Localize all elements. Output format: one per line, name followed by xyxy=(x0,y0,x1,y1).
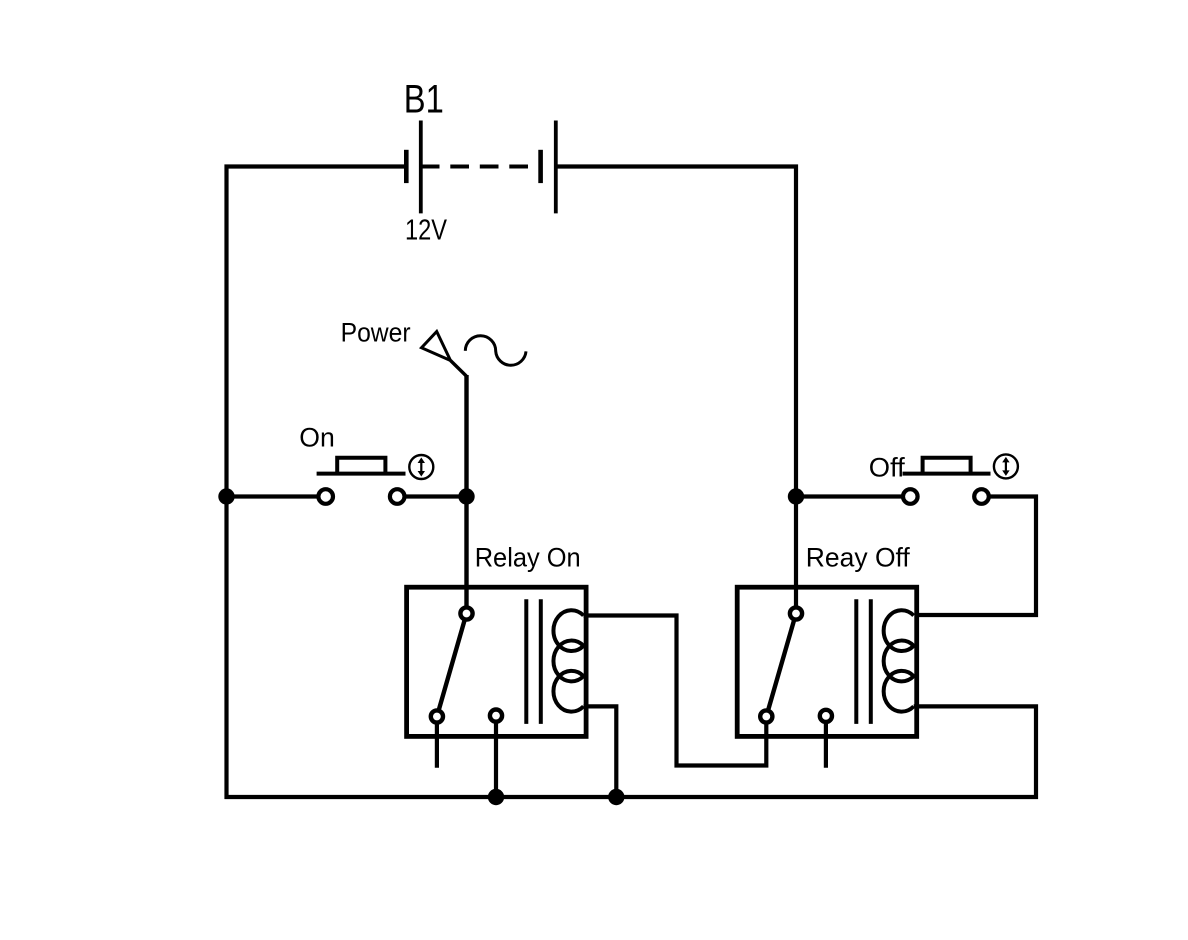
coil core line 1 xyxy=(524,599,528,724)
coil core line 2 xyxy=(539,599,543,724)
junction node right rail xyxy=(788,488,804,504)
battery cell2 negative plate xyxy=(538,150,543,183)
battery B1 xyxy=(406,121,556,214)
switch NC terminal xyxy=(760,710,772,722)
svg-text:Off: Off xyxy=(869,453,905,483)
wire right rail to Off terminal xyxy=(796,494,902,498)
switch NO terminal xyxy=(820,710,832,722)
svg-text:Reay Off: Reay Off xyxy=(806,542,910,572)
svg-text:On: On xyxy=(299,423,335,453)
coil loops xyxy=(553,610,583,711)
battery cell2 positive plate xyxy=(554,121,558,214)
NO wire down to bus xyxy=(494,716,498,797)
svg-text:Relay On: Relay On xyxy=(475,542,581,572)
switch common terminal xyxy=(460,607,472,619)
svg-text:12V: 12V xyxy=(405,214,447,246)
wire left loop: left vertical + top wire to battery xyxy=(227,167,407,800)
junction node bus Relay On coil xyxy=(608,789,624,805)
buzzer lead xyxy=(451,361,467,377)
wire Relay On coil bottom to bus xyxy=(584,706,617,797)
relay Relay On xyxy=(407,587,586,797)
junction node bus Relay On NO xyxy=(488,789,504,805)
pushbutton S1 actuator icon circle xyxy=(409,455,433,479)
battery cell1 negative plate xyxy=(404,150,409,183)
switch NO terminal xyxy=(490,710,502,722)
On terminal right xyxy=(390,489,405,504)
On terminal left xyxy=(318,489,333,504)
wire On terminal to power node xyxy=(406,494,468,498)
junction node left rail xyxy=(218,488,234,504)
pushbutton S1 cap xyxy=(337,458,385,474)
pushbutton S2 cap xyxy=(923,458,971,474)
relay box xyxy=(407,587,586,736)
buzzer horn triangle xyxy=(422,332,451,361)
coil core line 2 xyxy=(869,599,873,724)
relay Reay Off xyxy=(737,587,917,768)
switch common terminal xyxy=(790,607,802,619)
NO stub xyxy=(824,716,828,768)
NC stub xyxy=(435,717,439,768)
junction node power/On xyxy=(458,488,474,504)
svg-text:B1: B1 xyxy=(404,77,444,121)
pushbutton S2 actuator arrow xyxy=(1002,457,1009,476)
wire Relay On coil top to Reay Off NC xyxy=(584,616,767,766)
pushbutton S1 actuator arrow xyxy=(418,458,425,477)
pushbutton S2 bar xyxy=(903,472,991,476)
relay box xyxy=(737,587,917,736)
pushbutton S1 bar xyxy=(317,472,406,476)
wire Off terminal to Reay Off coil top xyxy=(916,497,1037,616)
svg-text:Power: Power xyxy=(341,317,411,347)
wire left vertical to On terminal xyxy=(227,494,318,498)
coil loops xyxy=(884,610,914,711)
bottom bus wire xyxy=(225,795,1039,799)
wire Reay Off coil bottom to bus right xyxy=(914,706,1036,799)
switch arm xyxy=(437,614,467,717)
Off terminal left xyxy=(903,489,918,504)
pushbutton S2 actuator icon circle xyxy=(994,454,1018,478)
buzzer sine squiggle xyxy=(465,336,526,365)
wire top right: battery to right vertical, down into Reay Off xyxy=(556,167,796,607)
battery cell1 positive plate xyxy=(419,121,423,214)
Off terminal right xyxy=(974,489,989,504)
coil core line 1 xyxy=(854,599,858,724)
battery dashed link xyxy=(421,165,541,169)
switch arm xyxy=(766,614,796,717)
switch NC terminal xyxy=(431,710,443,722)
wire power down to Relay On common xyxy=(464,375,468,607)
